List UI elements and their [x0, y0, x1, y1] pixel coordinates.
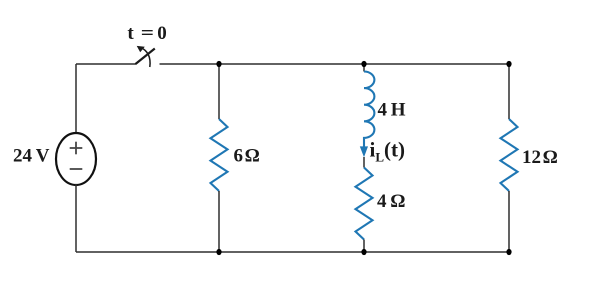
- node dot top branch1: [216, 61, 221, 67]
- wire left vertical lower: [75, 184, 77, 252]
- svg-text:0: 0: [157, 23, 167, 44]
- wire branch2 stub top: [363, 64, 365, 72]
- wire top rail right segment: [160, 63, 510, 65]
- svg-text:6 Ω: 6 Ω: [234, 146, 260, 167]
- wire branch1 lower: [218, 191, 220, 252]
- switch SW1 blade: [136, 49, 155, 65]
- voltage source minus sign: [70, 168, 83, 170]
- wire left vertical upper: [75, 64, 77, 134]
- node dot top right: [506, 61, 511, 67]
- node dot bottom right: [506, 249, 511, 255]
- switch SW1 arrowhead: [137, 46, 145, 52]
- inductor L1 4H: [364, 71, 374, 147]
- wire right vertical lower: [508, 191, 510, 252]
- svg-text:4 H: 4 H: [378, 100, 406, 121]
- svg-text:4 Ω: 4 Ω: [377, 191, 406, 212]
- node dot bottom branch2: [361, 249, 366, 255]
- wire branch1 upper: [218, 64, 220, 119]
- svg-text:24 V: 24 V: [13, 146, 50, 167]
- voltage source V1: [56, 133, 96, 185]
- wire branch2 middle: [363, 157, 365, 168]
- switch SW1 actuation arc: [140, 47, 150, 67]
- svg-text:12 Ω: 12 Ω: [522, 147, 558, 168]
- resistor R3 12ohm: [501, 119, 518, 191]
- svg-text:iL(t): iL(t): [370, 138, 406, 165]
- svg-text:t: t: [127, 23, 134, 44]
- resistor R2 4ohm: [356, 168, 373, 240]
- voltage source plus sign: [70, 142, 83, 155]
- node dot bottom branch1: [216, 249, 221, 255]
- svg-text:=: =: [141, 23, 154, 44]
- node dot top branch2: [361, 61, 366, 67]
- resistor R1 6ohm: [211, 119, 228, 191]
- current arrow iL(t): [360, 146, 368, 157]
- wire branch2 lower: [363, 240, 365, 253]
- wire top rail left segment: [76, 63, 136, 65]
- wire bottom rail: [76, 251, 509, 253]
- wire right vertical upper: [508, 64, 510, 119]
